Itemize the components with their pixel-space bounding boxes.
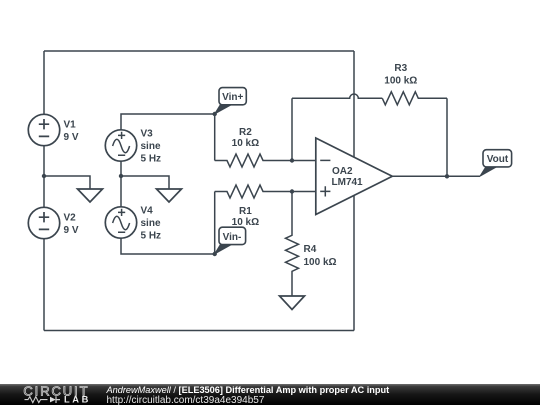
svg-text:sine: sine — [141, 218, 161, 229]
svg-text:10 kΩ: 10 kΩ — [232, 217, 259, 228]
wire feedback horizontal with hop over supply — [292, 94, 382, 98]
svg-text:R3: R3 — [394, 63, 407, 74]
ground G2 — [157, 189, 182, 202]
wire V2 to bottom rail — [43, 239, 45, 331]
bottom banner — [0, 384, 540, 405]
wire op-amp V- supply — [353, 196, 355, 331]
svg-text:9 V: 9 V — [64, 132, 79, 143]
wire V4 bottom to Vin- node — [121, 238, 215, 254]
node inverting input junction — [290, 158, 294, 162]
sine source V4 — [105, 207, 136, 238]
svg-text:AndrewMaxwell / [ELE3506] Diff: AndrewMaxwell / [ELE3506] Differential A… — [106, 385, 390, 395]
svg-text:5 Hz: 5 Hz — [141, 231, 162, 242]
CircuitLab logo wordmark — [23, 383, 89, 398]
wire junction to ground G1 — [44, 176, 90, 189]
wire output — [392, 175, 480, 177]
svg-text:Vin+: Vin+ — [222, 92, 243, 103]
svg-text:Vout: Vout — [487, 154, 509, 165]
wire R3 down to output node — [446, 98, 448, 176]
svg-text:V3: V3 — [141, 129, 154, 140]
ground G3 — [280, 296, 305, 310]
sine source V3 — [105, 130, 136, 161]
svg-text:V2: V2 — [64, 212, 77, 223]
wire top supply rail V1 to op-amp V+ — [44, 50, 354, 52]
node Vin- junction — [213, 252, 217, 256]
svg-text:LAB: LAB — [64, 395, 91, 405]
svg-text:OA2: OA2 — [332, 166, 353, 177]
voltage source V2 — [28, 207, 59, 238]
resistor R4 — [286, 192, 299, 297]
wire V1 to V2 — [43, 146, 45, 208]
svg-text:sine: sine — [141, 141, 161, 152]
resistor R1 — [215, 185, 292, 198]
wire op-amp V+ supply — [353, 51, 355, 158]
svg-text:R1: R1 — [239, 206, 252, 217]
resistor R3 — [382, 92, 447, 105]
svg-text:R2: R2 — [239, 127, 252, 138]
wire V1 top lead — [43, 51, 45, 114]
wire feedback vertical from inverting node — [291, 98, 293, 160]
svg-text:V4: V4 — [141, 206, 154, 217]
logo resistor squiggle and diode — [25, 396, 61, 403]
wire V3 top to Vin+ node — [121, 114, 215, 130]
flag Vin+ — [215, 88, 247, 114]
svg-text:V1: V1 — [64, 119, 77, 130]
resistor R2 — [215, 154, 292, 167]
wire V3 to V4 — [120, 161, 122, 207]
svg-text:5 Hz: 5 Hz — [141, 154, 162, 165]
svg-text:R4: R4 — [304, 244, 317, 255]
node junction V1-V2 — [42, 174, 46, 178]
op-amp OA2 LM741 — [316, 138, 393, 215]
node junction V3-V4 — [119, 174, 123, 178]
ground G1 — [78, 189, 103, 202]
wire R1 to op-amp non-inverting input — [292, 191, 316, 193]
node non-inverting input junction — [290, 189, 294, 193]
wire junction to ground G2 — [121, 176, 169, 189]
svg-text:100 kΩ: 100 kΩ — [384, 76, 417, 87]
svg-text:9 V: 9 V — [64, 225, 79, 236]
flag Vout — [480, 150, 512, 177]
node Vin+ junction — [213, 112, 217, 116]
svg-text:LM741: LM741 — [332, 177, 364, 188]
wire R2 to op-amp inverting input — [292, 160, 316, 162]
svg-text:http://circuitlab.com/ct39a4e3: http://circuitlab.com/ct39a4e394b57 — [107, 395, 265, 405]
wire Vin- node up to R1 — [214, 192, 216, 255]
wire Vin+ node down to R2 — [214, 114, 216, 161]
node output junction — [445, 174, 449, 178]
wire bottom supply rail — [44, 330, 354, 332]
svg-text:100 kΩ: 100 kΩ — [304, 257, 337, 268]
svg-text:10 kΩ: 10 kΩ — [232, 138, 259, 149]
voltage source V1 — [28, 114, 59, 145]
svg-text:Vin-: Vin- — [223, 232, 242, 243]
flag Vin- — [215, 227, 246, 254]
